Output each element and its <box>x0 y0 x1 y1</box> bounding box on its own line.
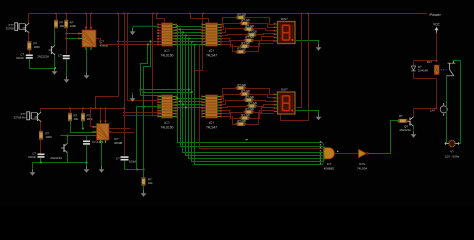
crystal XT1 <box>15 23 26 31</box>
resistor R8 <box>397 119 409 122</box>
svg-text:R? 220: R? 220 <box>242 113 251 117</box>
label U2 <box>114 137 122 145</box>
ground G10 stub <box>132 93 134 95</box>
wire to IC1 pin left2 <box>67 38 82 40</box>
svg-text:4068BD: 4068BD <box>324 167 334 171</box>
junction rail <box>90 13 92 15</box>
switch SW1 <box>446 61 455 76</box>
junction rail <box>152 13 154 15</box>
display DIS1 <box>274 22 296 44</box>
wire R7 bottom <box>143 186 145 191</box>
junction rail2 <box>123 108 125 110</box>
wire gate input stub <box>323 156 325 159</box>
junction bus r2 <box>185 107 187 109</box>
svg-text:1N4148: 1N4148 <box>418 69 428 73</box>
wire Q1 emitter <box>28 33 30 42</box>
junction Q4 collector <box>67 135 69 137</box>
label R1 <box>34 42 41 50</box>
IC U3 <box>157 23 177 46</box>
IC U4 <box>201 23 222 46</box>
junction bus r1 <box>191 41 193 43</box>
capacitor C1 <box>26 55 33 59</box>
label U8 <box>357 162 367 171</box>
wire IC6 to R22 <box>222 101 245 105</box>
svg-text:DIS?: DIS? <box>281 17 288 21</box>
svg-text:R? 220: R? 220 <box>238 83 247 87</box>
junction gnd bus <box>86 162 88 164</box>
wire cross green 2 <box>144 92 192 94</box>
svg-text:4060B: 4060B <box>114 141 122 145</box>
wire rail drop x125 <box>128 14 158 101</box>
wire C2 to ground <box>66 60 68 77</box>
resistor R26 <box>235 119 246 126</box>
IC U1 <box>78 26 99 50</box>
svg-text:32768: 32768 <box>6 27 14 31</box>
svg-text:74LS47: 74LS47 <box>206 54 217 58</box>
wire R5 bottom to node <box>71 121 97 133</box>
resistor R25 <box>239 113 250 120</box>
wire gate out to R8 <box>391 121 399 154</box>
label bus speck <box>246 139 248 140</box>
IC U2 <box>92 120 112 143</box>
wire relay link dashed <box>441 69 448 71</box>
transistor Q4 <box>61 143 68 153</box>
resistor R13 <box>246 30 257 37</box>
svg-text:100k: 100k <box>70 24 77 28</box>
wire Q3 emitter <box>40 122 42 131</box>
junction bus r1 <box>182 32 184 34</box>
wire bus link r1 y26 <box>177 26 202 28</box>
label C1 <box>16 53 24 61</box>
wire C3 node <box>40 158 42 163</box>
svg-text:R? 220: R? 220 <box>249 30 258 34</box>
svg-text:10k: 10k <box>74 117 79 121</box>
wire IC4 to R13 <box>221 35 249 36</box>
wire switch to lamp left <box>447 76 449 144</box>
resistor R16 <box>235 47 246 54</box>
resistor R2 <box>54 20 57 28</box>
wire gate input stub <box>323 152 325 154</box>
wire gate input stub <box>323 143 325 148</box>
svg-text:IC?a: IC?a <box>359 162 365 166</box>
transistor Q1 <box>23 23 30 33</box>
wire IC5 left box <box>141 95 162 97</box>
wire display2 to ground <box>295 111 319 114</box>
junction rail2 <box>90 108 92 110</box>
wire cross green 1 <box>141 89 189 91</box>
wire link IC5 pin7 <box>123 115 162 117</box>
wire IC4 to R12 <box>221 29 245 33</box>
transistor Q3 <box>35 112 42 122</box>
junction rail <box>65 13 67 15</box>
junction node emitter2 <box>54 67 56 69</box>
ground G8 <box>84 166 90 173</box>
wire bus link r2 y98 <box>177 98 202 100</box>
junction bus r2 <box>179 100 181 102</box>
wire rail drop x121 to reset cap <box>124 14 126 156</box>
resistor R12 <box>243 24 254 31</box>
resistor R1 <box>28 42 32 51</box>
wire bus red line <box>200 45 323 149</box>
resistor R11 <box>239 18 250 25</box>
label R7 <box>148 178 153 186</box>
resistor R24 <box>243 107 254 114</box>
svg-text:R? 220: R? 220 <box>242 89 251 93</box>
wire Q5 collector <box>413 109 415 117</box>
wire bus link r2 y104 <box>177 104 202 106</box>
wire bus vertical 4 <box>186 36 323 156</box>
crystal XT2 <box>27 112 38 120</box>
wire IC6 to R25 <box>222 114 241 119</box>
label XT1 <box>6 23 14 31</box>
wire gate input stub <box>323 147 325 150</box>
svg-text:R? 220: R? 220 <box>238 47 247 51</box>
wire bus vertical 7 <box>195 45 323 165</box>
wire C5 down <box>124 161 126 170</box>
ground G6 <box>411 131 417 138</box>
wire IC6 to R26 <box>222 117 237 125</box>
wire IC4 to R14 <box>221 39 245 41</box>
wire R2 top lead <box>56 14 58 21</box>
svg-text:C? 2.2uF: C? 2.2uF <box>92 140 104 144</box>
label U4 <box>206 49 217 57</box>
junction bus r1 <box>179 28 181 30</box>
wire reset node horizontal <box>125 169 144 171</box>
wire bus vertical 6 <box>192 42 323 162</box>
wire R1 to C1 <box>29 51 31 55</box>
IC U5 <box>157 95 177 118</box>
svg-text:LA?: LA? <box>430 109 435 113</box>
wire rail drop x153 <box>152 14 154 117</box>
wire rail drop x190 to IC4 <box>191 14 209 23</box>
wire IC1 bottom pin to ground <box>86 47 88 73</box>
wire bus link r1 y44 <box>177 44 202 46</box>
resistor R21 <box>239 89 250 96</box>
wire IC1 vcc pin to rail <box>86 14 88 27</box>
gate U7 AND <box>324 148 335 159</box>
capacitor C5 <box>121 156 129 160</box>
svg-text:IC?: IC? <box>165 49 170 53</box>
resistor R7 <box>142 178 146 186</box>
label V1 <box>445 150 460 159</box>
svg-text:R? 220: R? 220 <box>238 119 247 123</box>
label R6 <box>87 114 94 122</box>
svg-text:C?: C? <box>116 157 120 161</box>
wire relay power down <box>436 79 438 109</box>
svg-text:R?: R? <box>399 114 403 118</box>
relay coil K1 <box>434 65 439 75</box>
label C3 <box>28 152 36 160</box>
wire IC4 to R16 <box>221 45 237 52</box>
ground G2 <box>64 76 70 83</box>
svg-text:12V - 60Hz: 12V - 60Hz <box>445 155 460 159</box>
junction IC5 left a <box>140 89 142 91</box>
wire IC5 left lower <box>137 106 162 108</box>
junction rail <box>202 13 204 15</box>
junction bus r1 <box>176 25 178 27</box>
label R5 <box>74 114 79 122</box>
wire IC1 pin to rail 2 <box>90 14 92 27</box>
ground G9 <box>99 166 105 173</box>
junction reset a <box>136 169 138 171</box>
wire switch loop right <box>454 61 461 144</box>
ground IC3 left <box>133 26 158 28</box>
svg-text:100nF: 100nF <box>129 160 137 164</box>
wire R7 top <box>143 170 145 178</box>
junction IC5 left c <box>143 106 145 108</box>
svg-text:74LS04: 74LS04 <box>357 167 367 171</box>
wire rail drop x117 <box>96 14 119 109</box>
svg-text:R? 220: R? 220 <box>238 12 247 16</box>
wire IC4 to R10 <box>221 18 237 27</box>
label Q5 <box>399 125 411 133</box>
junction bus r2 <box>182 104 184 106</box>
wire link IC5 pin6 <box>123 112 162 114</box>
wire to ground G7 <box>32 163 34 169</box>
wire C4 to ground <box>86 145 88 167</box>
capacitor C4 <box>83 141 90 145</box>
svg-text:1000: 1000 <box>46 135 53 139</box>
wire bus link r2 y101 <box>177 101 202 103</box>
wire gate input stub <box>323 159 325 165</box>
wire R20 to display2 <box>245 89 274 95</box>
wire R6 bottom <box>82 121 84 129</box>
wire R4 to C3 <box>40 140 42 154</box>
junction relay top <box>436 60 438 62</box>
junction rail <box>127 13 129 15</box>
junction rail <box>189 13 191 15</box>
wire IC6 to R23 <box>222 107 249 108</box>
wire Q5 emitter <box>413 126 415 131</box>
wire R14 to display1 <box>253 37 274 41</box>
resistor R6 <box>81 113 84 121</box>
resistor R20 <box>235 83 246 90</box>
wire net B from IC1 down <box>144 42 151 93</box>
wire R12 to display1 <box>253 29 274 31</box>
junction reset b <box>143 169 145 171</box>
junction rail2 <box>82 108 84 110</box>
display DIS2 <box>274 92 296 114</box>
wire bottom node horizontal <box>33 162 87 164</box>
wire relay loop bottom <box>414 78 437 80</box>
wire power drop x301 <box>297 14 302 108</box>
capacitor C3 <box>38 154 45 158</box>
svg-text:2N2222A: 2N2222A <box>37 55 49 59</box>
junction rail <box>156 13 158 15</box>
label C4 <box>92 140 104 144</box>
label U5 <box>161 121 174 129</box>
wire Q1 collector to rail <box>28 14 30 24</box>
junction rail <box>301 13 303 15</box>
junction bus r1 <box>194 44 196 46</box>
svg-text:R? 220: R? 220 <box>246 24 255 28</box>
svg-text:IC?: IC? <box>327 162 332 166</box>
wire bus link r1 y41 <box>177 41 202 43</box>
junction rail2 <box>69 108 71 110</box>
svg-text:IC?: IC? <box>209 49 214 53</box>
label R2 <box>60 21 65 29</box>
wire R2 to Q2 collector <box>54 29 56 46</box>
svg-text:C?: C? <box>58 54 62 58</box>
junction R6 node <box>82 128 84 130</box>
svg-text:R? 220: R? 220 <box>246 95 255 99</box>
wire display1 to ground <box>295 41 319 45</box>
lamp V1 <box>445 140 460 146</box>
wire Q4 emitter down <box>67 153 69 163</box>
label U6 <box>206 121 217 129</box>
svg-text:74LS190: 74LS190 <box>161 54 174 58</box>
svg-text:V?: V? <box>450 150 454 154</box>
junction rail <box>123 13 125 15</box>
wire bus link r1 y29 <box>177 29 202 31</box>
wire relay loop top <box>414 60 437 62</box>
wire mid red jog <box>195 14 203 77</box>
wire R6 top <box>82 109 84 113</box>
wire IC6 to R20 <box>222 89 237 99</box>
power VCC arrow <box>435 27 439 33</box>
wire gate input stub <box>323 155 325 156</box>
junction R3 node b <box>65 38 67 40</box>
wire bus vertical 1 <box>178 27 323 143</box>
svg-text:R? 220: R? 220 <box>249 101 258 105</box>
wire R3 top lead <box>66 14 68 21</box>
wire IC2 right out1 <box>109 128 131 130</box>
wire C4 top <box>86 136 88 141</box>
wire net A from IC1 to IC5 <box>141 45 148 96</box>
svg-text:R? 220: R? 220 <box>242 18 251 22</box>
wire IC2 top pin2 <box>105 109 107 121</box>
svg-text:Power: Power <box>430 12 442 17</box>
svg-text:R? 220: R? 220 <box>246 107 255 111</box>
ground G11 <box>316 114 322 121</box>
wire bus vertical 2 <box>181 30 323 147</box>
ground G7 <box>30 169 36 176</box>
diode D1 <box>411 66 415 71</box>
svg-text:32768 Hz: 32768 Hz <box>14 116 27 120</box>
wire R11 to display1 <box>249 24 274 28</box>
wire power drop x308 <box>281 14 309 121</box>
wire IC6 to R21 <box>222 95 241 102</box>
junction rail <box>117 13 119 15</box>
wire gate input stub <box>323 149 325 151</box>
label D1 <box>418 65 428 73</box>
resistor R10 <box>235 12 246 19</box>
svg-text:IC?: IC? <box>209 121 214 125</box>
wire C1 down to node <box>30 59 55 69</box>
wire R15 to display1 <box>249 41 274 47</box>
resistor R5 <box>68 113 71 121</box>
svg-text:RL?: RL? <box>427 60 433 64</box>
wire to IC2 left pin2 <box>61 135 97 137</box>
meter M1 <box>440 103 447 116</box>
junction rail <box>55 13 57 15</box>
wire bus link r1 y32 <box>177 32 202 34</box>
label R3 <box>70 21 77 29</box>
label C2 <box>58 54 62 58</box>
wire rail drop x157 to IC3 <box>157 14 165 23</box>
wire buffer output <box>369 153 391 155</box>
wire collector to node <box>414 108 437 110</box>
wire IC4 to R15 <box>221 42 241 47</box>
wire rail2 drop to IC2 pin1 <box>91 109 97 127</box>
ground G4 <box>130 28 136 35</box>
wire reset vert a <box>136 107 138 170</box>
wire bottom power rail <box>41 108 125 110</box>
svg-text:10k: 10k <box>148 181 153 185</box>
pin numbers gate <box>320 141 321 164</box>
ground G5 <box>316 44 322 51</box>
wire gate output <box>335 153 359 155</box>
wire R5 top <box>70 109 72 113</box>
wire bus vertical 3 <box>183 33 323 153</box>
label R4 <box>46 132 53 140</box>
junction net A top <box>147 44 149 46</box>
resistor R14 <box>243 35 254 42</box>
resistor R4 <box>39 131 43 140</box>
resistor R3 <box>65 20 68 28</box>
junction net B top <box>150 40 152 42</box>
wire IC4 to R11 <box>221 24 241 30</box>
svg-text:2N2222A: 2N2222A <box>399 128 411 132</box>
svg-text:1000: 1000 <box>34 45 41 49</box>
wire VCC down <box>436 33 438 61</box>
wire reset vert b <box>143 93 145 170</box>
wire gate input stub <box>323 158 325 162</box>
IC U6 <box>201 95 222 118</box>
wire bus link r2 y107 <box>177 107 202 109</box>
capacitor C2 <box>63 55 70 59</box>
wire IC2 bottom pin to ground <box>101 141 103 167</box>
wire R3 bottom to C2 <box>66 29 68 55</box>
svg-text:R? 220: R? 220 <box>242 41 251 45</box>
svg-text:100nF: 100nF <box>28 155 36 159</box>
junction cross1 bundle <box>188 89 190 91</box>
junction rail <box>85 13 87 15</box>
label U3 <box>161 49 174 57</box>
ground G10 <box>130 95 136 102</box>
junction collector node <box>436 108 438 110</box>
junction R3 node a <box>65 33 67 35</box>
wire diode top lead <box>413 61 415 66</box>
junction rail2 <box>95 108 97 110</box>
wire R24 to display2 <box>253 108 274 113</box>
junction rail <box>307 13 309 15</box>
svg-text:10k: 10k <box>60 24 65 28</box>
resistor R22 <box>243 95 254 102</box>
wire R8 to base <box>407 120 411 122</box>
resistor R15 <box>239 41 250 48</box>
transistor Q5 <box>407 117 414 127</box>
wire top power rail VCC <box>29 13 427 15</box>
junction IC5 left b <box>143 91 145 93</box>
svg-text:74LS190: 74LS190 <box>161 126 174 130</box>
svg-text:100nF: 100nF <box>16 56 24 60</box>
transistor Q2 <box>49 45 56 55</box>
svg-text:IC?: IC? <box>165 121 170 125</box>
junction rail2 <box>105 108 107 110</box>
wire R13 to display1 <box>256 34 274 35</box>
svg-text:R? 220: R? 220 <box>246 35 255 39</box>
junction bus r2 <box>176 97 178 99</box>
junction bus r1 <box>185 35 187 37</box>
wire Q4 collector up <box>67 136 69 144</box>
label U1 <box>100 40 108 48</box>
svg-text:DIS?: DIS? <box>281 88 288 92</box>
wire R23 to display2 <box>256 105 274 107</box>
wire IC2 top pins to rail2 <box>100 109 102 121</box>
svg-text:100k: 100k <box>87 117 94 121</box>
wire Q2 emitter down <box>54 55 56 69</box>
